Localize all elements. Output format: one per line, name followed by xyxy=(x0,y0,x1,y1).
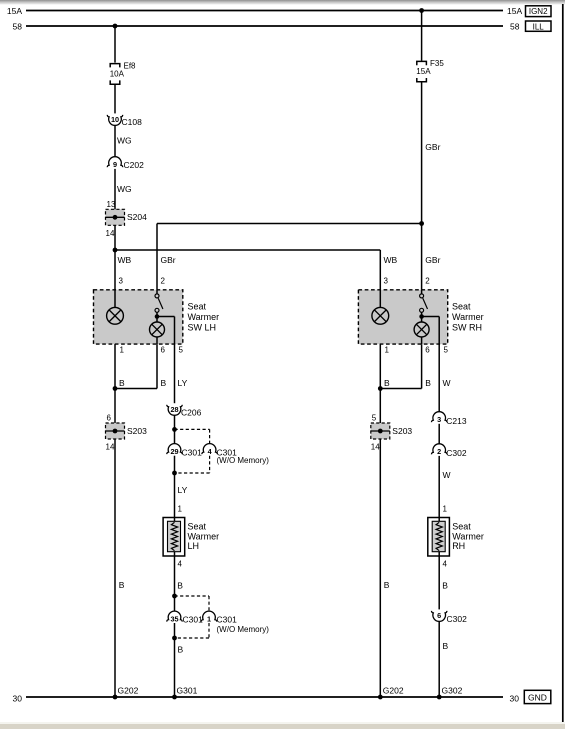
svg-text:Seat: Seat xyxy=(452,302,471,312)
svg-text:B: B xyxy=(442,580,448,590)
svg-text:2: 2 xyxy=(437,447,441,456)
svg-text:Warmer: Warmer xyxy=(452,531,484,541)
svg-text:WG: WG xyxy=(117,136,132,146)
svg-text:G202: G202 xyxy=(118,686,139,696)
svg-text:30: 30 xyxy=(13,693,23,703)
svg-text:B: B xyxy=(161,378,167,388)
svg-text:1: 1 xyxy=(207,614,211,623)
svg-text:B: B xyxy=(425,378,431,388)
svg-text:GBr: GBr xyxy=(161,255,176,265)
svg-text:29: 29 xyxy=(170,447,178,456)
svg-text:C301: C301 xyxy=(183,615,204,625)
svg-text:(W/O Memory): (W/O Memory) xyxy=(217,456,270,465)
svg-text:B: B xyxy=(178,644,184,654)
svg-text:GND: GND xyxy=(528,692,547,702)
svg-text:W: W xyxy=(443,378,451,388)
svg-text:58: 58 xyxy=(510,22,520,32)
svg-text:5: 5 xyxy=(372,414,377,423)
svg-text:WB: WB xyxy=(384,255,398,265)
svg-text:S203: S203 xyxy=(127,426,147,436)
svg-text:LH: LH xyxy=(188,541,200,551)
svg-text:S204: S204 xyxy=(127,212,147,222)
svg-text:10: 10 xyxy=(111,115,119,124)
svg-text:G202: G202 xyxy=(383,686,404,696)
svg-text:Warmer: Warmer xyxy=(188,531,220,541)
svg-text:1: 1 xyxy=(178,505,183,514)
svg-text:6: 6 xyxy=(437,611,441,620)
svg-text:2: 2 xyxy=(161,277,166,286)
svg-text:C108: C108 xyxy=(122,117,143,127)
svg-text:B: B xyxy=(119,580,125,590)
svg-text:F35: F35 xyxy=(430,59,444,68)
svg-text:WB: WB xyxy=(118,255,132,265)
svg-text:C206: C206 xyxy=(181,407,202,417)
svg-text:SW LH: SW LH xyxy=(188,323,217,333)
svg-text:B: B xyxy=(384,378,390,388)
svg-text:SW RH: SW RH xyxy=(452,323,482,333)
svg-text:1: 1 xyxy=(385,346,390,355)
svg-text:GBr: GBr xyxy=(425,255,440,265)
svg-text:Seat: Seat xyxy=(452,522,471,532)
svg-text:C302: C302 xyxy=(446,448,467,458)
svg-text:5: 5 xyxy=(179,346,184,355)
svg-text:1: 1 xyxy=(443,505,448,514)
svg-text:C301: C301 xyxy=(217,615,238,625)
svg-text:G302: G302 xyxy=(442,686,463,696)
svg-text:10A: 10A xyxy=(110,70,125,79)
svg-text:B: B xyxy=(384,580,390,590)
svg-text:14: 14 xyxy=(106,229,115,238)
svg-text:LY: LY xyxy=(178,485,188,495)
svg-text:6: 6 xyxy=(161,346,166,355)
svg-text:B: B xyxy=(119,378,125,388)
svg-text:ILL: ILL xyxy=(533,22,545,31)
svg-text:4: 4 xyxy=(443,559,448,568)
svg-text:G301: G301 xyxy=(177,686,198,696)
svg-text:C213: C213 xyxy=(446,416,467,426)
svg-text:15A: 15A xyxy=(416,67,431,76)
svg-text:S203: S203 xyxy=(392,426,412,436)
svg-text:30: 30 xyxy=(510,693,520,703)
svg-text:6: 6 xyxy=(425,346,430,355)
svg-text:Warmer: Warmer xyxy=(188,312,220,322)
svg-text:B: B xyxy=(443,641,449,651)
svg-text:IGN2: IGN2 xyxy=(529,7,548,16)
svg-text:B: B xyxy=(177,580,183,590)
svg-text:W: W xyxy=(443,470,451,480)
svg-text:6: 6 xyxy=(107,414,112,423)
svg-text:WG: WG xyxy=(117,184,132,194)
svg-text:(W/O Memory): (W/O Memory) xyxy=(217,625,270,634)
svg-text:GBr: GBr xyxy=(425,142,440,152)
svg-text:2: 2 xyxy=(425,277,430,286)
svg-text:3: 3 xyxy=(119,277,124,286)
svg-text:58: 58 xyxy=(13,21,23,31)
svg-text:Ef8: Ef8 xyxy=(124,61,137,70)
svg-text:Seat: Seat xyxy=(188,302,207,312)
svg-text:3: 3 xyxy=(437,415,441,424)
svg-text:Warmer: Warmer xyxy=(452,312,484,322)
svg-text:35: 35 xyxy=(170,614,178,623)
svg-text:4: 4 xyxy=(178,559,183,568)
svg-text:28: 28 xyxy=(170,405,178,414)
svg-text:LY: LY xyxy=(178,378,188,388)
svg-text:5: 5 xyxy=(444,346,449,355)
svg-text:Seat: Seat xyxy=(188,522,207,532)
svg-text:13: 13 xyxy=(107,200,116,209)
svg-text:C301: C301 xyxy=(182,447,203,457)
svg-text:3: 3 xyxy=(384,277,389,286)
svg-text:RH: RH xyxy=(452,541,465,551)
svg-text:C302: C302 xyxy=(447,614,468,624)
svg-text:15A: 15A xyxy=(7,6,22,16)
svg-text:15A: 15A xyxy=(507,6,522,16)
svg-text:C202: C202 xyxy=(124,160,145,170)
svg-text:1: 1 xyxy=(120,346,125,355)
svg-text:9: 9 xyxy=(113,160,117,169)
svg-text:14: 14 xyxy=(106,443,115,452)
svg-text:14: 14 xyxy=(371,443,380,452)
